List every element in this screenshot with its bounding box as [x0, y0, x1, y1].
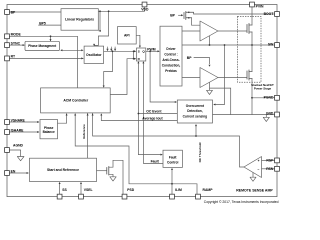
node SW line rail junction [251, 44, 253, 46]
svg-text:OC Event: OC Event [146, 110, 162, 114]
svg-text:SW: SW [268, 42, 274, 46]
transistor high-side power FET Q1 [247, 24, 249, 34]
wire boot switch source to high-side driver supply [192, 18, 201, 25]
svg-text:RAMP: RAMP [203, 188, 214, 192]
block ACM Controller [41, 88, 111, 113]
pin SYNC [5, 43, 10, 48]
wire RT pin to Oscillator left edge [10, 57, 84, 59]
pin VDD [142, 2, 147, 7]
node VDD junction [99, 10, 101, 12]
arrow ISHARE into Phase Balance [37, 131, 39, 133]
wire OC threshold arrow up into Overcurrent bottom [195, 126, 197, 136]
TRIANGLES AND FETS [200, 21, 262, 178]
svg-text:OC Threshold: OC Threshold [198, 142, 202, 162]
op-amp remote sense amplifier U-RSA [244, 157, 262, 178]
arrow BP into boot switch gate [181, 14, 183, 16]
node SW line sense junction [224, 44, 226, 46]
wire Start and Reference to discharge FET gate [97, 170, 107, 172]
wire Phase Balance output up into ACM bottom [58, 114, 67, 123]
wire Average Iout from Overcurrent block to ACM bottom [101, 115, 177, 121]
PIN SQUARES [5, 2, 280, 199]
wire SW sense down into Overcurrent block right [215, 45, 225, 105]
arrow line A up into flip-flop bottom [137, 61, 139, 63]
wire Reference from ACM bottom to Start and Reference top [87, 113, 89, 158]
block Linear Regulators [61, 9, 98, 31]
svg-text:+: + [258, 159, 260, 163]
svg-text:Control :: Control : [164, 53, 177, 57]
svg-text:Driver: Driver [166, 47, 176, 51]
svg-text:Anti-Cross-: Anti-Cross- [162, 58, 179, 62]
node MODE junction [50, 35, 52, 37]
svg-text:Detection,: Detection, [187, 109, 203, 113]
svg-text:ISHARE: ISHARE [11, 128, 25, 132]
wire feedback line from remote sense amp to ACM bottom [93, 113, 244, 167]
pin PGND [275, 95, 280, 100]
wire VDD pin down and left into Linear Regulators right edge [98, 7, 144, 11]
svg-text:Conduction,: Conduction, [162, 64, 181, 68]
svg-text:−: − [258, 168, 260, 172]
node PGND line rail junction [251, 97, 253, 99]
arrow stair into Oscillator top [93, 44, 95, 46]
arrow EN into Start and Reference [27, 172, 29, 174]
arrow RT into Oscillator [81, 57, 83, 59]
arrow Reference up into ACM bottom [87, 113, 89, 115]
arrow OC threshold up into Overcurrent bottom [195, 124, 197, 126]
wire BP arrow feed to boot switch gate [179, 14, 183, 16]
pin AGND [5, 148, 10, 153]
wire low-side FET drain and source stubs [249, 72, 252, 79]
wire low-side FET gate from driver apex [218, 77, 247, 79]
svg-text:ILIM: ILIM [175, 188, 182, 192]
wire PVIN rail through power FETs to PGND line [251, 7, 253, 115]
ground below discharge FET [110, 177, 116, 181]
pin RT [5, 56, 10, 61]
arrow into ACM top from oscillator stair [103, 86, 105, 88]
wire GND symbol stub [265, 115, 267, 118]
svg-text:REMOTE SENSE AMP: REMOTE SENSE AMP [236, 189, 273, 193]
wire MODE branch down into Phase Managment top [50, 36, 52, 41]
ARROWHEADS [23, 14, 216, 184]
wire EN pin to Start and Reference [10, 172, 29, 174]
wire discharge FET drain to PSD pin [109, 160, 123, 194]
svg-text:PGND: PGND [264, 96, 274, 100]
pin BP [5, 10, 10, 15]
svg-text:BP5: BP5 [39, 21, 46, 25]
wire high-side FET gate from driver apex [218, 30, 247, 32]
svg-text:BP: BP [187, 56, 192, 60]
block Start and Reference [30, 158, 97, 181]
svg-text:VDD: VDD [141, 7, 149, 11]
transistor PSD discharge FET [107, 167, 109, 176]
wire Oscillator output to flip-flop S input [104, 50, 136, 52]
wire Driver Control to low-side driver input [182, 77, 200, 79]
arrow Phase Managment left end [60, 49, 62, 51]
svg-text:Current sensing: Current sensing [183, 115, 207, 119]
wire ILIM pin up into Fault Control bottom [171, 170, 173, 195]
wire SYNC pin to Phase Managment left edge [10, 44, 25, 46]
ground below AGND pin [17, 157, 24, 161]
node R line tap junction [133, 58, 135, 60]
pin PVIN [250, 2, 255, 7]
svg-text:Start and Reference: Start and Reference [47, 168, 79, 172]
svg-text:ACM Controller: ACM Controller [63, 99, 89, 103]
wire BP pin to Linear Regulators left edge [10, 11, 62, 13]
svg-text:SS: SS [62, 188, 67, 192]
node oscillator line junction [112, 50, 114, 52]
svg-text:Average Iout: Average Iout [142, 117, 163, 121]
svg-text:Oscillator: Oscillator [86, 53, 102, 57]
svg-text:PWM: PWM [147, 47, 155, 51]
arrow VSEL up into Start and Reference [80, 182, 82, 184]
wire low-side driver bottom stub to ground and PGND sense [210, 82, 231, 114]
pin SW [275, 43, 280, 48]
wire flip-flop reset line A down to Fault Control [138, 62, 161, 154]
block API [118, 27, 137, 44]
pin PSD [122, 194, 127, 199]
arrow MODE line into Phase Managment [50, 39, 52, 41]
arrow feedback line up into ACM bottom [92, 113, 94, 115]
wire RAMP pin line to ACM bottom [75, 114, 197, 194]
wire VDD stair down to Oscillator top [94, 11, 109, 46]
svg-text:BP: BP [11, 10, 16, 14]
wire VSHARE pin to Phase Balance [10, 121, 39, 123]
svg-text:Fault: Fault [151, 160, 160, 164]
wire Phase Managment to Oscillator bidirectional [62, 49, 83, 51]
arrow SS up into Start and Reference [59, 182, 61, 184]
arrow Average Iout up into ACM bottom [100, 113, 102, 115]
pin EN [5, 171, 10, 176]
arrow Phase Balance up into ACM bottom [66, 113, 68, 115]
arrow line B up into flip-flop bottom [142, 61, 144, 63]
wire net BP5 stub from Linear Regulators left edge [39, 24, 61, 26]
wire PWM output to Driver Control [146, 50, 159, 52]
block Overcurrent Detection Current sensing [177, 100, 212, 123]
wire PWM branch down to Overcurrent block left [150, 51, 176, 102]
pin GND [275, 112, 280, 117]
node RAMP ILIM junction [171, 183, 173, 185]
wire GND sense line from Overcurrent block to GND pin [213, 114, 275, 116]
arrow phase clock 2 onto oscillator line [111, 47, 112, 51]
node boot switch drain dot [188, 12, 190, 14]
svg-text:RSP: RSP [266, 159, 274, 163]
pin RSP [275, 158, 280, 163]
arrow comparator line into flip-flop R [134, 58, 136, 60]
svg-text:Fault: Fault [169, 155, 178, 159]
block Driver Control Anti-Cross-Conduction Prebias [160, 26, 182, 86]
arrow BP down into low-side driver [209, 65, 211, 67]
pin RAMP [196, 194, 201, 199]
arrow PWM into Driver Control [158, 50, 160, 52]
wire flip-flop set line B down to Fault Control [143, 62, 163, 163]
ground at GND pin net [263, 117, 269, 121]
wire discharge FET source to ground [109, 174, 113, 177]
wire boot switch drain to BOOT pin [194, 12, 275, 14]
node OC event line A junction [138, 113, 140, 115]
wire ACM PWM comparator to flip-flop R input [110, 59, 135, 95]
arrow oscillator line into flip-flop S [134, 50, 136, 52]
svg-text:Prebias: Prebias [165, 69, 177, 73]
ground below low-side driver [207, 90, 213, 94]
pin MODE [5, 34, 10, 39]
svg-text:SYNC: SYNC [11, 41, 21, 45]
pin ILIM [170, 194, 175, 199]
arrow phase clock 3 onto oscillator line [114, 47, 115, 51]
wire VDD branch down to Linear Regulators lower right edge [99, 11, 100, 31]
block Oscillator [84, 46, 104, 63]
wire MODE pin to ACM Controller top [10, 36, 78, 88]
transistor low-side power FET Q2 [247, 70, 249, 80]
svg-text:Copyright © 2017, Texas Instru: Copyright © 2017, Texas Instruments Inco… [204, 200, 279, 204]
svg-text:PVIN: PVIN [256, 4, 264, 8]
wire API output to flip-flop top [136, 35, 140, 46]
svg-text:Control: Control [167, 160, 178, 164]
wire RSN pin to remote sense amp [262, 168, 275, 170]
node SW line driver stub junction [209, 44, 211, 46]
arrow phase clock 1 onto oscillator line [107, 47, 108, 51]
BLOCKS [25, 9, 261, 182]
arrow SW sense into Overcurrent right [213, 104, 215, 106]
arrow API into flip-flop top [139, 46, 141, 48]
wire remote sense amp ground stub [252, 173, 254, 178]
op-amp low-side gate driver [200, 68, 218, 88]
pin RSN [275, 166, 280, 171]
wire BP supply down into low-side driver top [194, 58, 210, 64]
svg-text:Overcurrent: Overcurrent [186, 104, 205, 108]
wire SW net line from Driver Control to SW pin [182, 44, 275, 46]
block PWM flip-flop [137, 48, 146, 61]
op-amp high-side gate driver [200, 21, 218, 41]
wire ISHARE pin to Phase Balance [10, 131, 39, 133]
svg-text:BP: BP [170, 14, 175, 18]
transistor boot switch [184, 12, 194, 20]
arrow VDD branch into Linear Regulators [99, 30, 101, 32]
arrow VSHARE into Phase Balance [37, 121, 39, 123]
block Fault Control [163, 150, 182, 167]
wire AGND pin to ground symbol [10, 150, 21, 157]
block Phase Managment [25, 41, 60, 50]
arrow PWM branch into Overcurrent left [175, 101, 177, 103]
svg-text:Reference: Reference [82, 124, 86, 139]
node PWM branch junction [149, 50, 151, 52]
wire OC Event from Overcurrent block left [138, 113, 177, 115]
svg-text:RSN: RSN [266, 167, 274, 171]
svg-text:BOOT: BOOT [264, 12, 275, 16]
node S line tap junction [133, 50, 135, 52]
pin SS [57, 194, 62, 199]
pin ISHARE [5, 130, 10, 135]
arrow ILIM up into Fault Control [171, 168, 173, 170]
svg-text:API: API [124, 34, 130, 38]
node boot switch source dot [188, 17, 190, 19]
svg-text:MODE: MODE [11, 33, 22, 37]
wire high-side driver bottom stub to SW line [209, 36, 211, 45]
block Phase Balance [40, 120, 58, 139]
dashed box Stacked NexFET Power Stage [238, 16, 262, 82]
wire Driver Control to high-side driver input [182, 30, 200, 32]
arrow line A into Fault Control [161, 154, 163, 156]
wire SS pin up into Start and Reference bottom [59, 183, 61, 194]
arrow Oscillator left end of phase line [81, 49, 83, 51]
pin VSHARE [5, 120, 10, 125]
svg-text:Phase Managment: Phase Managment [28, 44, 57, 48]
wire VSEL pin up into Start and Reference bottom [80, 183, 82, 194]
svg-text:S: S [138, 50, 140, 54]
svg-text:Balance: Balance [43, 130, 55, 134]
wire stub S line to R line [133, 51, 135, 58]
ground below remote sense amp [250, 177, 256, 181]
wire high-side FET drain and source stubs [249, 25, 252, 32]
svg-text:VSEL: VSEL [84, 188, 93, 192]
svg-text:EN: EN [11, 169, 16, 173]
pin VSEL [79, 194, 84, 199]
wire RSP pin to remote sense amp [262, 159, 275, 161]
svg-text:GND: GND [266, 112, 274, 116]
svg-text:PSD: PSD [127, 188, 135, 192]
wire PGND line to PGND pin [252, 97, 275, 99]
svg-text:Power Stage: Power Stage [254, 87, 272, 91]
svg-text:AGND: AGND [13, 143, 24, 147]
outer border frame [7, 5, 277, 197]
arrow SYNC into Phase Managment [23, 44, 25, 46]
node VDD stair junction [108, 10, 110, 12]
arrow RAMP line up into ACM bottom [74, 113, 76, 115]
pin BOOT [275, 12, 280, 17]
svg-text:Linear Regulators: Linear Regulators [65, 18, 94, 22]
svg-text:VSHARE: VSHARE [11, 118, 26, 122]
wire oscillator junction stair to ACM Controller top [104, 51, 113, 86]
node OC threshold junction [195, 135, 197, 137]
GROUND SYMBOLS [17, 90, 269, 181]
